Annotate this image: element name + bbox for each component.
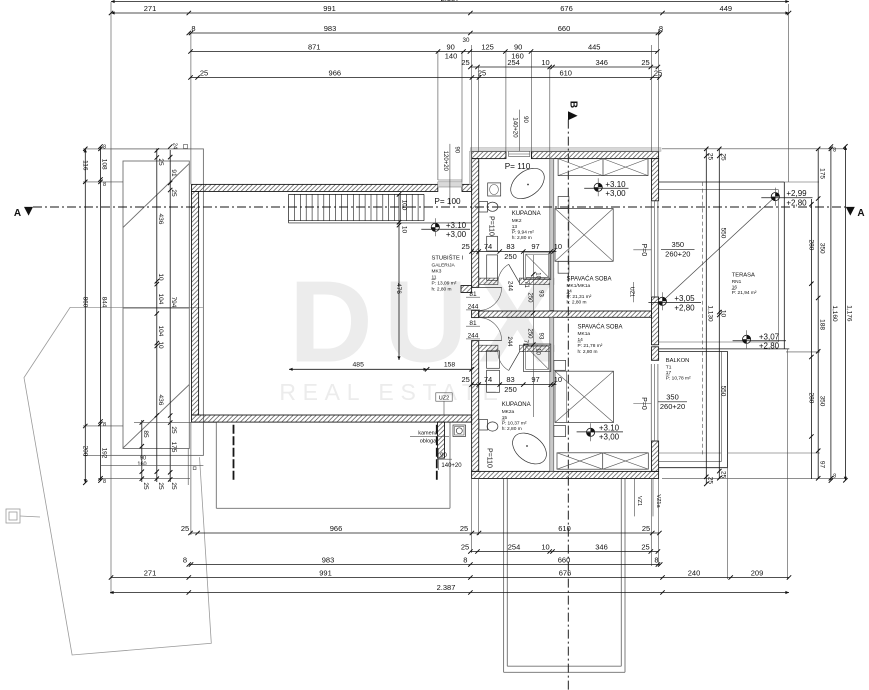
svg-text:350: 350 [818, 396, 825, 407]
svg-text:MK2a: MK2a [502, 409, 515, 415]
svg-text:25: 25 [478, 69, 486, 78]
svg-text:260+20: 260+20 [660, 402, 685, 411]
svg-text:125: 125 [481, 43, 494, 52]
svg-text:280: 280 [808, 240, 815, 251]
svg-text:188: 188 [818, 319, 825, 330]
svg-text:93: 93 [538, 333, 544, 340]
svg-text:h: 2,80 m: h: 2,80 m [502, 426, 522, 432]
svg-text:10: 10 [541, 543, 549, 552]
svg-text:25: 25 [200, 69, 208, 78]
svg-text:25: 25 [157, 158, 164, 166]
svg-text:8: 8 [833, 148, 836, 154]
svg-text:140+20: 140+20 [441, 463, 462, 469]
svg-text:104: 104 [157, 326, 164, 337]
svg-text:25: 25 [462, 242, 470, 251]
svg-text:+3,00: +3,00 [599, 433, 620, 442]
svg-text:794: 794 [170, 297, 177, 308]
svg-text:445: 445 [588, 43, 601, 52]
svg-text:P= 110: P= 110 [505, 162, 531, 171]
svg-text:983: 983 [322, 556, 335, 565]
svg-text:+2,80: +2,80 [674, 303, 695, 312]
svg-text:93: 93 [538, 290, 544, 297]
svg-text:+3.10: +3.10 [599, 423, 620, 432]
svg-text:MK1/MK1a: MK1/MK1a [567, 283, 591, 289]
svg-text:160: 160 [137, 462, 146, 468]
svg-text:871: 871 [308, 43, 321, 52]
svg-text:24: 24 [172, 143, 178, 149]
svg-text:SPAVAĆA SOBA: SPAVAĆA SOBA [578, 324, 623, 331]
svg-text:P=110: P=110 [486, 448, 493, 468]
svg-text:25: 25 [641, 58, 649, 67]
svg-text:8: 8 [183, 556, 187, 565]
svg-text:449: 449 [720, 4, 733, 13]
svg-text:10: 10 [401, 226, 408, 234]
svg-text:STUBIŠTE I: STUBIŠTE I [432, 255, 464, 262]
svg-text:100: 100 [401, 200, 408, 211]
svg-text:244: 244 [506, 336, 512, 347]
svg-text:P=110: P=110 [488, 216, 495, 236]
svg-text:T1: T1 [666, 365, 672, 371]
svg-text:244: 244 [468, 304, 479, 311]
svg-text:8: 8 [833, 474, 836, 480]
svg-text:346: 346 [595, 543, 608, 552]
svg-text:350: 350 [818, 243, 825, 254]
svg-text:90: 90 [522, 116, 528, 123]
svg-text:250: 250 [504, 385, 517, 394]
svg-text:244: 244 [468, 333, 479, 340]
svg-text:860: 860 [82, 297, 89, 308]
svg-text:271: 271 [144, 4, 157, 13]
svg-text:25: 25 [720, 471, 727, 479]
svg-text:+2,80: +2,80 [786, 199, 807, 208]
svg-text:A: A [857, 208, 864, 219]
svg-text:97: 97 [531, 242, 539, 251]
svg-text:h: 2,80 m: h: 2,80 m [567, 300, 587, 306]
svg-text:175: 175 [170, 442, 177, 453]
svg-text:108: 108 [101, 159, 108, 170]
svg-text:DUX: DUX [289, 257, 567, 387]
svg-text:81: 81 [469, 291, 477, 298]
svg-text:8: 8 [103, 182, 106, 188]
svg-text:25: 25 [170, 189, 177, 197]
svg-text:MK1a: MK1a [578, 331, 591, 337]
svg-text:844: 844 [101, 297, 108, 308]
svg-text:10: 10 [554, 242, 562, 251]
svg-text:280: 280 [808, 393, 815, 404]
svg-text:991: 991 [319, 569, 332, 578]
svg-text:74: 74 [484, 375, 492, 384]
svg-text:74: 74 [484, 242, 492, 251]
svg-text:8: 8 [103, 145, 106, 151]
svg-text:KUPAONA: KUPAONA [502, 402, 531, 408]
svg-text:10: 10 [541, 58, 549, 67]
svg-text:476: 476 [395, 283, 402, 294]
svg-text:10: 10 [157, 341, 164, 349]
svg-text:983: 983 [324, 24, 337, 33]
svg-text:610: 610 [559, 69, 572, 78]
svg-text:485: 485 [353, 362, 365, 369]
svg-text:P: 13,09 m²: P: 13,09 m² [432, 281, 457, 287]
svg-text:209: 209 [751, 569, 764, 578]
svg-text:25: 25 [170, 482, 177, 490]
svg-text:+2,80: +2,80 [759, 342, 780, 351]
svg-text:25: 25 [461, 543, 469, 552]
svg-text:25: 25 [157, 482, 164, 490]
svg-text:8: 8 [103, 479, 106, 485]
svg-text:120+20: 120+20 [442, 151, 448, 172]
svg-text:25: 25 [461, 58, 469, 67]
svg-text:30: 30 [463, 37, 470, 44]
svg-text:UZ2: UZ2 [439, 395, 449, 401]
svg-text:8: 8 [463, 556, 467, 565]
svg-text:+3,00: +3,00 [605, 189, 626, 198]
svg-text:25: 25 [707, 153, 714, 161]
svg-text:254: 254 [507, 58, 520, 67]
svg-text:660: 660 [558, 24, 571, 33]
svg-text:25: 25 [462, 375, 470, 384]
svg-text:25: 25 [642, 524, 650, 533]
svg-text:676: 676 [559, 569, 572, 578]
svg-text:+2,99: +2,99 [786, 189, 807, 198]
svg-text:RN1: RN1 [732, 279, 742, 285]
svg-text:116: 116 [82, 160, 89, 171]
svg-text:SPAVAĆA SOBA: SPAVAĆA SOBA [567, 276, 612, 283]
svg-text:550: 550 [720, 386, 727, 397]
svg-text:140+20: 140+20 [512, 117, 518, 138]
svg-text:8: 8 [103, 422, 106, 428]
svg-text:A: A [14, 208, 21, 219]
svg-text:97: 97 [531, 375, 539, 384]
svg-text:25: 25 [720, 153, 727, 161]
svg-text:436: 436 [157, 395, 164, 406]
svg-text:25: 25 [181, 524, 189, 533]
svg-text:1,160: 1,160 [831, 305, 838, 322]
svg-text:550: 550 [720, 228, 727, 239]
svg-text:240: 240 [688, 569, 701, 578]
svg-text:P: 9,94 m²: P: 9,94 m² [512, 230, 535, 236]
svg-text:192: 192 [101, 448, 108, 459]
svg-text:25: 25 [707, 477, 714, 485]
svg-text:8: 8 [659, 24, 663, 33]
svg-text:GALERIJA: GALERIJA [432, 263, 456, 269]
svg-text:25: 25 [170, 426, 177, 434]
svg-text:90: 90 [447, 43, 455, 52]
svg-text:254: 254 [508, 543, 521, 552]
svg-text:2.387: 2.387 [441, 0, 460, 3]
svg-text:140: 140 [445, 52, 458, 61]
svg-text:966: 966 [330, 524, 343, 533]
svg-text:90: 90 [514, 43, 522, 52]
svg-text:676: 676 [560, 4, 573, 13]
svg-text:MK3: MK3 [432, 269, 442, 275]
svg-text:81: 81 [469, 320, 477, 327]
svg-text:85: 85 [142, 430, 149, 438]
svg-text:346: 346 [595, 58, 608, 67]
svg-text:90: 90 [440, 453, 447, 459]
svg-text:P: 10,37 m²: P: 10,37 m² [502, 420, 527, 426]
svg-text:436: 436 [157, 214, 164, 225]
svg-text:25: 25 [142, 482, 149, 490]
svg-text:UZ1: UZ1 [628, 287, 634, 297]
svg-text:8: 8 [654, 556, 658, 565]
svg-text:90: 90 [453, 146, 459, 153]
svg-text:obloga: obloga [420, 439, 437, 445]
svg-text:P: 21,94 m²: P: 21,94 m² [732, 290, 757, 296]
svg-text:10: 10 [157, 273, 164, 281]
svg-text:71: 71 [523, 281, 529, 288]
svg-text:350: 350 [672, 240, 685, 249]
svg-text:KUPAONA: KUPAONA [512, 211, 541, 217]
svg-text:P= 100: P= 100 [434, 197, 461, 206]
svg-text:158: 158 [444, 362, 456, 369]
svg-text:260+20: 260+20 [665, 250, 690, 259]
svg-text:P: 21,78 m²: P: 21,78 m² [578, 343, 603, 349]
svg-text:REAL ESTATE: REAL ESTATE [279, 379, 504, 405]
svg-text:71: 71 [522, 340, 528, 347]
svg-text:83: 83 [506, 242, 514, 251]
svg-text:TERASA: TERASA [732, 273, 755, 279]
svg-text:25: 25 [654, 69, 662, 78]
svg-text:250: 250 [527, 328, 533, 339]
svg-text:175: 175 [818, 168, 825, 179]
svg-text:200: 200 [82, 446, 89, 457]
svg-text:991: 991 [323, 4, 336, 13]
svg-text:P: 21,31 m²: P: 21,31 m² [567, 294, 592, 300]
svg-text:10: 10 [554, 375, 562, 384]
svg-text:610: 610 [558, 524, 571, 533]
svg-text:966: 966 [329, 69, 342, 78]
svg-text:h: 2,80 m: h: 2,80 m [578, 349, 598, 355]
svg-text:MK2: MK2 [512, 218, 522, 224]
svg-text:250: 250 [527, 292, 533, 303]
svg-text:83: 83 [506, 375, 514, 384]
svg-text:1,130: 1,130 [707, 305, 714, 322]
svg-text:B: B [567, 101, 578, 108]
svg-text:10: 10 [720, 310, 727, 318]
svg-text:10: 10 [535, 272, 541, 279]
svg-text:91: 91 [170, 169, 177, 177]
svg-text:+3,00: +3,00 [446, 230, 467, 239]
svg-text:350: 350 [666, 393, 679, 402]
svg-text:+3,05: +3,05 [674, 294, 695, 303]
svg-text:2.387: 2.387 [437, 583, 456, 592]
svg-text:97: 97 [818, 461, 825, 469]
svg-text:271: 271 [144, 569, 157, 578]
svg-text:VZ1: VZ1 [636, 496, 642, 506]
svg-text:P: 10,78 m²: P: 10,78 m² [666, 376, 691, 382]
svg-text:+3.10: +3.10 [605, 180, 626, 189]
svg-text:BALKON: BALKON [666, 358, 690, 364]
svg-text:8: 8 [191, 24, 195, 33]
svg-text:+3,07: +3,07 [759, 332, 780, 341]
svg-text:VZ1a: VZ1a [655, 494, 661, 508]
svg-text:h: 2,80 m: h: 2,80 m [512, 235, 532, 241]
svg-text:10: 10 [535, 348, 541, 355]
svg-text:244: 244 [506, 281, 512, 292]
svg-text:660: 660 [558, 556, 571, 565]
svg-text:h: 2,80 m: h: 2,80 m [432, 287, 452, 293]
svg-text:104: 104 [157, 294, 164, 305]
svg-text:25: 25 [641, 543, 649, 552]
svg-text:250: 250 [504, 252, 517, 261]
svg-text:1,176: 1,176 [846, 305, 853, 322]
svg-text:+3.10: +3.10 [446, 221, 467, 230]
svg-text:kamena: kamena [418, 431, 439, 437]
svg-text:25: 25 [460, 524, 468, 533]
